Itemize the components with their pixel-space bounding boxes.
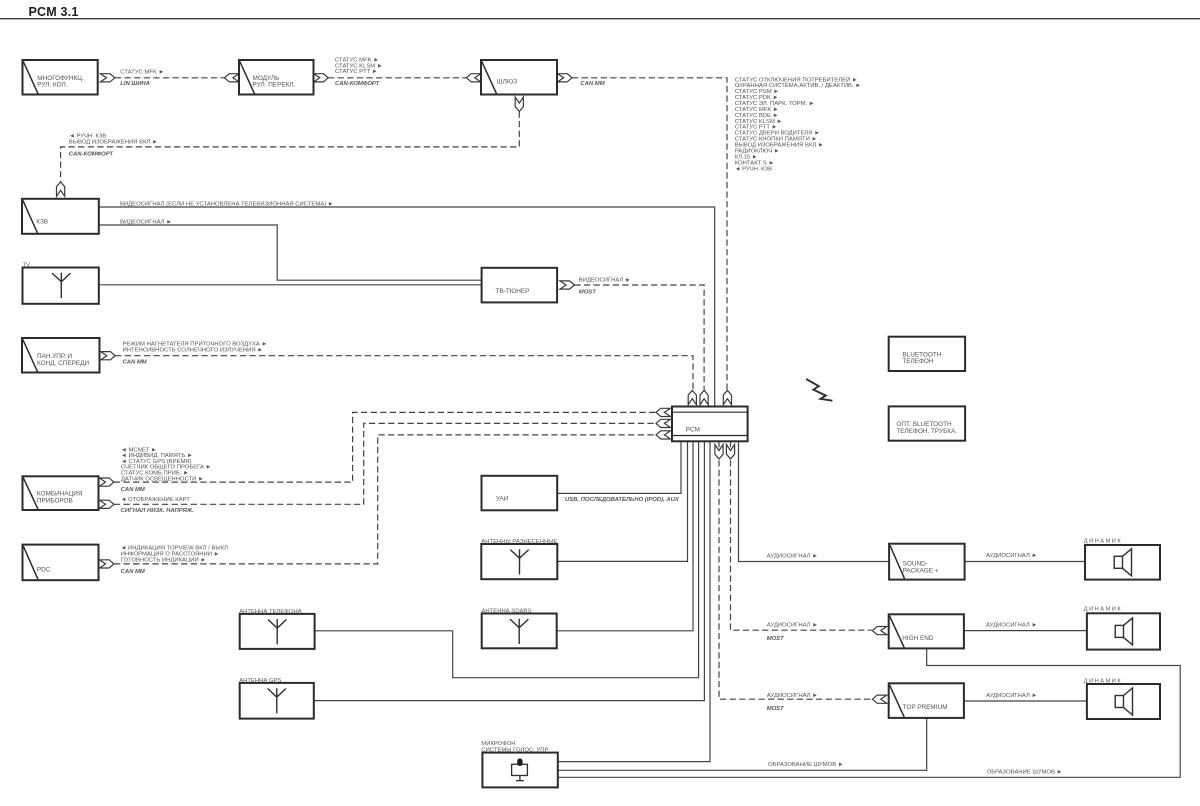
block МИКРОФОН СИСТЕМЫ ГОЛОС. УПР: [482, 753, 557, 788]
label аудиосигнал sound left: [767, 553, 818, 559]
label аудиосигнал high right: [986, 623, 1037, 629]
connector PCM top arrow 2: [700, 390, 708, 404]
label MOST TV tuner: [579, 289, 597, 295]
label HIGH END text: [902, 635, 934, 642]
lightning bolt wireless symbol: [806, 379, 832, 401]
svg-text:ОБРАЗОВАНИЕ ШУМОВ ►: ОБРАЗОВАНИЕ ШУМОВ ►: [987, 769, 1063, 775]
icon speaker 3: [1115, 688, 1132, 715]
svg-text:АУДИОСИГНАЛ ►: АУДИОСИГНАЛ ►: [767, 623, 818, 629]
connector PCM bottom arrow 1: [715, 445, 723, 459]
block ДИНАМИК 1: [1085, 545, 1160, 580]
svg-text:PCM: PCM: [686, 427, 700, 434]
connector multifunction wheel output: [100, 74, 114, 82]
svg-text:РУЛ. ПЕРЕКЛ.: РУЛ. ПЕРЕКЛ.: [253, 82, 296, 89]
wire TV antenna to TV tuner: [99, 284, 482, 286]
icon TV antenna symbol: [52, 273, 70, 298]
svg-text:ПАН.УПР. И: ПАН.УПР. И: [37, 353, 73, 360]
block КОМБИНАЦИЯ ПРИБОРОВ: [23, 476, 99, 510]
wire CAN comfort module to gateway: [328, 77, 466, 79]
icon SDARS antenna symbol: [510, 619, 528, 644]
title rule: [0, 18, 1200, 20]
label SOUND-PACKAGE text: [903, 560, 939, 574]
svg-text:LIN ШИНА: LIN ШИНА: [120, 81, 150, 87]
svg-text:АУДИОСИГНАЛ ►: АУДИОСИГНАЛ ►: [986, 623, 1037, 629]
wire GPS antenna to PCM: [314, 441, 705, 701]
wire KZV video signal 2 to TV tuner: [99, 225, 482, 280]
svg-text:PCM 3.1: PCM 3.1: [29, 5, 79, 19]
svg-text:CAN MM: CAN MM: [121, 487, 146, 493]
svg-text:Д И Н А М И К: Д И Н А М И К: [1084, 607, 1122, 613]
block КЗВ: [22, 199, 99, 234]
svg-text:ВИДЕОСИГНАЛ (ЕСЛИ НЕ УСТАНОВЛЕ: ВИДЕОСИГНАЛ (ЕСЛИ НЕ УСТАНОВЛЕНА ТЕЛЕВИЗ…: [120, 201, 334, 207]
svg-text:ОБРАЗОВАНИЕ ШУМОВ ►: ОБРАЗОВАНИЕ ШУМОВ ►: [768, 762, 844, 768]
label видеосигнал 2: [120, 219, 172, 225]
svg-text:АНТЕННА ТЕЛЕФОНА: АНТЕННА ТЕЛЕФОНА: [239, 609, 301, 615]
svg-text:АУДИОСИГНАЛ ►: АУДИОСИГНАЛ ►: [986, 693, 1037, 699]
wire MOST TV tuner to PCM: [574, 285, 704, 390]
wire TOP PREMIUM to speaker 3: [964, 700, 1087, 702]
connector HIGH END input arrow: [872, 627, 886, 635]
block ПАН.УПР. И КОНД. СПЕРЕДИ: [22, 338, 100, 373]
label CAN MM cluster: [121, 487, 146, 493]
icon phone antenna symbol: [268, 619, 286, 644]
label CAN MM panel: [123, 359, 148, 365]
svg-text:USB, ПОСЛЕДОВАТЕЛЬНО (IPOD), A: USB, ПОСЛЕДОВАТЕЛЬНО (IPOD), AUX: [565, 497, 680, 503]
wire LIN bus MFK wheel to module: [115, 77, 224, 79]
block АНТЕННА GPS: [240, 683, 314, 719]
label МОДУЛЬ РУЛ. ПЕРЕКЛ. text: [253, 75, 296, 89]
wire CAN MM gateway to PCM: [572, 78, 727, 390]
icon speaker 2: [1115, 618, 1132, 645]
connector front AC panel output: [101, 352, 115, 360]
connector TV tuner output: [560, 281, 574, 289]
block ДИНАМИК 2: [1087, 613, 1160, 649]
svg-text:ТВ-ТЮНЕР: ТВ-ТЮНЕР: [496, 288, 530, 295]
label MOST top: [767, 706, 785, 712]
label аудиосигнал sound right: [986, 553, 1037, 559]
block SOUND-PACKAGE +: [889, 544, 965, 580]
svg-text:CAN MM: CAN MM: [580, 81, 605, 87]
label МНОГОФУНКЦ. РУЛ. КОЛ. text: [37, 75, 84, 89]
connector PCM top arrow 3: [723, 390, 731, 404]
label УАИ text: [496, 496, 509, 503]
block АНТЕННА SDARS: [482, 614, 557, 649]
label ОПТ. BLUETOOTH text: [896, 421, 957, 435]
label MOST high: [767, 636, 785, 642]
connector PCM left arrow 3: [656, 431, 670, 439]
label status MFK / LIN bus: [120, 69, 164, 75]
svg-text:АНТЕННА GPS: АНТЕННА GPS: [239, 678, 281, 684]
block PCM: [672, 407, 748, 442]
svg-text:CAN-КОМФОРТ: CAN-КОМФОРТ: [69, 151, 115, 157]
wire SDARS antenna to PCM: [557, 441, 693, 631]
wire MOST PCM to TOP PREMIUM: [719, 441, 872, 699]
label видеосигнал если не установлена ТВ: [120, 201, 334, 207]
svg-text:АУДИОСИГНАЛ ►: АУДИОСИГНАЛ ►: [767, 693, 818, 699]
block ТВ антенна: [23, 268, 99, 304]
svg-text:ПРИБОРОВ: ПРИБОРОВ: [37, 497, 73, 504]
label КОМБИНАЦИЯ ПРИБОРОВ text: [37, 490, 83, 504]
wire microphone line 1 to PCM: [558, 441, 710, 762]
label gateway CAN MM signal list: [735, 75, 861, 172]
svg-text:ТЕЛЕФОН. ТРУБКА.: ТЕЛЕФОН. ТРУБКА.: [896, 428, 957, 435]
connector KZV top arrow: [57, 182, 65, 196]
block TOP PREMIUM: [889, 683, 964, 718]
block HIGH END: [889, 614, 964, 648]
svg-text:Д И Н А М И К: Д И Н А М И К: [1084, 679, 1122, 685]
svg-text:МИКРОФОН: МИКРОФОН: [481, 741, 515, 747]
label CAN MM PDC: [121, 569, 146, 575]
label отображение карт: [121, 497, 191, 503]
wire CAN MM PDC to PCM: [114, 435, 656, 564]
svg-text:ВЫВОД ИЗОБРАЖЕНИЯ ВКЛ ►: ВЫВОД ИЗОБРАЖЕНИЯ ВКЛ ►: [69, 140, 158, 146]
label сигнал низк напряж: [121, 508, 195, 514]
svg-text:КЗВ: КЗВ: [36, 218, 48, 225]
connector steering module input: [225, 74, 239, 82]
wire CAN MM instrument cluster 1 to PCM: [114, 412, 656, 482]
svg-text:ГОТОВНОСТЬ ИНДИКАЦИИ ►: ГОТОВНОСТЬ ИНДИКАЦИИ ►: [121, 557, 207, 563]
icon diversity antenna symbol: [510, 549, 528, 574]
block ОПТ. BLUETOOTH ТРУБКА: [889, 406, 965, 440]
connector gateway input: [466, 74, 480, 82]
label ПАН.УПР. text: [37, 353, 89, 367]
svg-text:◄ РУЧН. КЗВ: ◄ РУЧН. КЗВ: [735, 166, 772, 172]
svg-text:PDC: PDC: [37, 567, 51, 574]
label КЗВ text: [36, 218, 48, 225]
icon GPS antenna symbol: [268, 688, 286, 713]
label TV label: [23, 262, 31, 268]
wire CAN MM front AC panel to PCM: [115, 356, 693, 391]
connector instrument cluster output 1: [100, 478, 114, 486]
label аудиосигнал top right: [986, 693, 1037, 699]
block ДИНАМИК 3: [1087, 684, 1160, 719]
svg-text:ВИДЕОСИГНАЛ ►: ВИДЕОСИГНАЛ ►: [579, 278, 631, 284]
connector instrument cluster output 2: [100, 500, 114, 508]
svg-text:ТЕЛЕФОН: ТЕЛЕФОН: [902, 358, 933, 365]
label PCM text: [686, 427, 700, 434]
label instrument cluster signal list: [121, 447, 211, 482]
label TOP PREMIUM text: [903, 704, 948, 711]
connector gateway output right: [558, 74, 572, 82]
label LIN ШИНА: [120, 81, 150, 87]
svg-text:ШЛЮЗ: ШЛЮЗ: [497, 79, 518, 86]
wire KZV video signal 1 to PCM: [99, 207, 715, 407]
wire low voltage signal cluster 2 to PCM: [114, 423, 656, 504]
svg-text:HIGH END: HIGH END: [902, 635, 934, 642]
svg-text:ДАТЧИК ОСВЕЩЕННОСТИ ►: ДАТЧИК ОСВЕЩЕННОСТИ ►: [121, 476, 204, 482]
connector PDC output: [100, 560, 114, 568]
svg-text:УАИ: УАИ: [496, 496, 509, 503]
label образование шумов right: [987, 769, 1063, 775]
svg-text:PACKAGE +: PACKAGE +: [903, 567, 939, 574]
block ШЛЮЗ: [481, 60, 557, 95]
svg-text:АУДИОСИГНАЛ ►: АУДИОСИГНАЛ ►: [986, 553, 1037, 559]
svg-text:MOST: MOST: [767, 706, 785, 712]
svg-text:MOST: MOST: [767, 636, 785, 642]
wire microphone line 2 to TOP PREMIUM: [558, 718, 927, 770]
svg-text:ИНТЕНСИВНОСТЬ СОЛНЕЧНОГО ИЗЛУЧ: ИНТЕНСИВНОСТЬ СОЛНЕЧНОГО ИЗЛУЧЕНИЯ ►: [123, 347, 264, 353]
connector PCM left arrow 2: [656, 419, 670, 427]
block АНТЕННЫ РАЗНЕСЕННЫЕ: [481, 544, 557, 579]
svg-text:АУДИОСИГНАЛ ►: АУДИОСИГНАЛ ►: [767, 553, 818, 559]
wire UAI to PCM: [557, 441, 681, 493]
label аудиосигнал high left: [767, 623, 818, 629]
label динамик label 1: [1084, 539, 1122, 545]
svg-text:Д И Н А М И К: Д И Н А М И К: [1084, 539, 1122, 545]
block BLUETOOTH ТЕЛЕФОН: [889, 337, 965, 371]
wire CAN comfort gateway to KZV: [61, 111, 520, 181]
svg-text:SOUND-: SOUND-: [903, 560, 928, 567]
svg-text:КОНД. СПЕРЕДИ: КОНД. СПЕРЕДИ: [37, 360, 89, 367]
svg-text:TOP PREMIUM: TOP PREMIUM: [903, 704, 948, 711]
label PDC signals: [121, 546, 228, 564]
label ШЛЮЗ text: [497, 79, 518, 86]
wire SOUND-PACKAGE to speaker 1: [965, 561, 1085, 563]
svg-text:АНТЕННЫ РАЗНЕСЕННЫЕ: АНТЕННЫ РАЗНЕСЕННЫЕ: [481, 539, 557, 545]
label РУЧН КЗВ / ВЫВОД ИЗОБРАЖЕНИЯ: [69, 134, 158, 146]
label видеосигнал TV tuner: [579, 278, 631, 284]
connector steering module output: [314, 74, 328, 82]
wire PCM audio to SOUND-PACKAGE: [739, 441, 890, 562]
svg-text:АНТЕННА SDARS: АНТЕННА SDARS: [482, 609, 532, 615]
connector PCM top arrow 1: [688, 390, 696, 404]
svg-text:CAN MM: CAN MM: [121, 569, 146, 575]
svg-text:ВИДЕОСИГНАЛ ►: ВИДЕОСИГНАЛ ►: [120, 219, 172, 225]
label CAN MM gateway: [580, 81, 605, 87]
label CAN-КОМФОРТ module-gateway: [335, 81, 381, 87]
block PDC: [23, 545, 99, 581]
block ТВ-ТЮНЕР: [482, 268, 557, 303]
block АНТЕННА ТЕЛЕФОНА: [240, 614, 315, 649]
label антенна GPS label: [239, 678, 281, 684]
icon microphone: [512, 758, 528, 780]
label антенны разнесенные label: [481, 539, 557, 545]
label динамик label 2: [1084, 607, 1122, 613]
svg-text:КОМБИНАЦИЯ: КОМБИНАЦИЯ: [37, 490, 83, 497]
svg-text:СИГНАЛ НИЗК. НАПРЯЖ.: СИГНАЛ НИЗК. НАПРЯЖ.: [121, 508, 195, 514]
label антенна телефона label: [239, 609, 301, 615]
label module to gateway signals: [335, 58, 383, 75]
label динамик label 3: [1084, 679, 1122, 685]
block УАИ: [482, 476, 558, 511]
svg-text:СИСТЕМЫ ГОЛОС. УПР: СИСТЕМЫ ГОЛОС. УПР: [481, 747, 548, 753]
wire microphone line 3 to HIGH END: [558, 649, 1180, 778]
label микрофон label: [481, 741, 548, 753]
label образование шумов left: [768, 762, 844, 768]
label BLUETOOTH ТЕЛЕФОН text: [902, 351, 941, 365]
svg-text:СТАТУС MFK ►: СТАТУС MFK ►: [120, 69, 164, 75]
icon speaker 1: [1114, 549, 1131, 576]
block МНОГОФУНКЦ. РУЛ. КОЛ.: [23, 60, 98, 95]
svg-text:РУЛ. КОЛ.: РУЛ. КОЛ.: [37, 82, 67, 89]
svg-text:TV: TV: [23, 262, 31, 268]
connector gateway output bottom: [515, 97, 523, 111]
label PDC text: [37, 567, 51, 574]
wire phone antenna to PCM: [315, 441, 699, 678]
block МОДУЛЬ РУЛ. ПЕРЕКЛ.: [239, 60, 314, 95]
wire diversity antennas to PCM: [557, 441, 687, 561]
svg-text:CAN MM: CAN MM: [123, 359, 148, 365]
connector PCM bottom arrow 2: [726, 445, 734, 459]
svg-text:СТАТУС PTT ►: СТАТУС PTT ►: [335, 69, 378, 75]
label USB IPOD AUX: [565, 497, 680, 503]
wire MOST PCM to HIGH END: [731, 441, 873, 630]
label CAN-КОМФОРТ gateway-KZV: [69, 151, 115, 157]
connector TOP PREMIUM input arrow: [872, 695, 886, 703]
svg-text:CAN-КОМФОРТ: CAN-КОМФОРТ: [335, 81, 381, 87]
label панель управления signals: [123, 341, 268, 353]
label ТВ-ТЮНЕР text: [496, 288, 530, 295]
svg-text:MOST: MOST: [579, 289, 597, 295]
connector PCM left arrow 1: [656, 408, 670, 416]
label аудиосигнал top left: [767, 693, 818, 699]
label антенна SDARS label: [482, 609, 532, 615]
svg-text:◄ ОТОБРАЖЕНИЕ КАРТ: ◄ ОТОБРАЖЕНИЕ КАРТ: [121, 497, 191, 503]
svg-text:СТАТУС ОТКЛЮЧЕНИЯ ПОТРЕБИТЕЛЕЙ: СТАТУС ОТКЛЮЧЕНИЯ ПОТРЕБИТЕЛЕЙ ►: [735, 75, 858, 83]
wire HIGH END to speaker 2: [964, 630, 1087, 632]
PCM inner lines: [672, 412, 748, 435]
